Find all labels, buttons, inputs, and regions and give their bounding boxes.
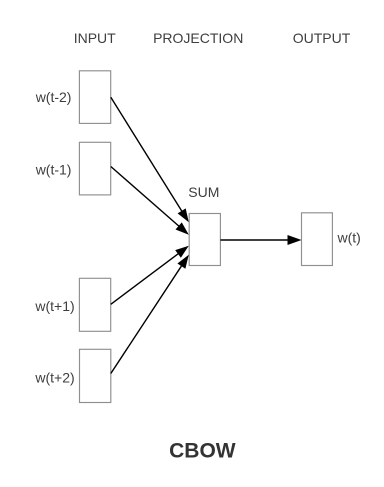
wire SUM to w(t) — [220, 239, 294, 241]
svg-text:INPUT: INPUT — [74, 30, 116, 46]
svg-text:w(t): w(t) — [337, 230, 361, 246]
input box w(t-1) — [79, 142, 110, 195]
svg-text:OUTPUT: OUTPUT — [293, 30, 351, 46]
wire w(t-1) to SUM — [111, 167, 184, 231]
svg-text:w(t+1): w(t+1) — [34, 298, 74, 314]
input box w(t-2) — [79, 71, 110, 124]
svg-text:CBOW: CBOW — [169, 440, 236, 463]
input box w(t+2) — [80, 349, 111, 402]
svg-text:w(t+2): w(t+2) — [34, 370, 74, 386]
arrowhead w(t+1) to SUM — [175, 246, 189, 258]
svg-text:w(t-1): w(t-1) — [35, 162, 72, 178]
arrowhead SUM to w(t) — [288, 235, 302, 245]
arrowhead w(t-1) to SUM — [176, 222, 189, 234]
arrowhead w(t+2) to SUM — [177, 255, 188, 269]
output box w(t) — [302, 213, 333, 266]
projection box SUM — [189, 214, 220, 266]
svg-text:PROJECTION: PROJECTION — [153, 30, 243, 46]
input box w(t+1) — [79, 278, 110, 331]
svg-text:SUM: SUM — [188, 184, 219, 200]
arrowhead w(t-2) to SUM — [178, 208, 189, 222]
svg-text:w(t-2): w(t-2) — [35, 89, 72, 105]
wire w(t-2) to SUM — [111, 97, 185, 216]
wire w(t+1) to SUM — [111, 250, 184, 304]
wire w(t+2) to SUM — [111, 260, 185, 373]
